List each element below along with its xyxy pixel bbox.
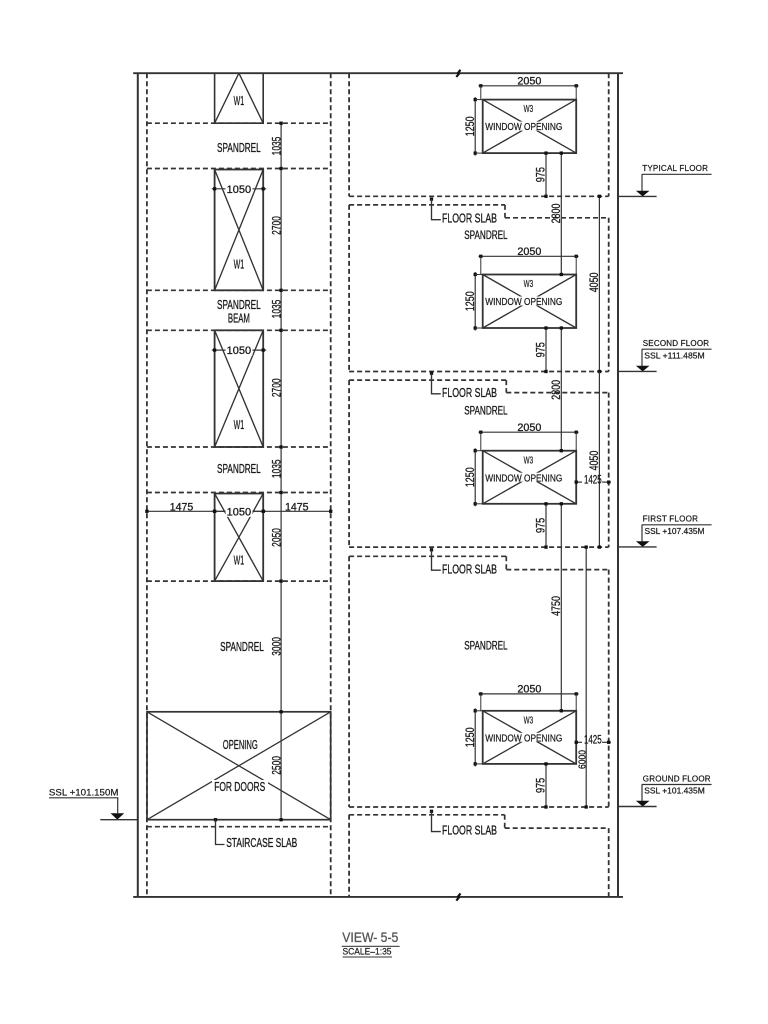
svg-text:975: 975 — [536, 778, 548, 793]
SECOND FLOOR drop line — [641, 349, 643, 366]
svg-text:OPENING: OPENING — [223, 737, 258, 752]
dim line 975 of W3 3 — [545, 504, 547, 547]
svg-text:SSL +101.435M: SSL +101.435M — [644, 786, 705, 796]
svg-text:W3: W3 — [524, 455, 534, 466]
svg-text:VIEW- 5-5: VIEW- 5-5 — [342, 930, 398, 945]
dim line 1050 of W1 third window — [212, 349, 266, 351]
svg-text:1425: 1425 — [584, 472, 602, 486]
svg-text:2050: 2050 — [517, 76, 541, 88]
dim line 6000 — [585, 547, 587, 807]
svg-text:SPANDREL: SPANDREL — [220, 639, 264, 654]
dim line 975 of W3 2 — [545, 328, 547, 372]
svg-text:FLOOR SLAB: FLOOR SLAB — [442, 823, 497, 838]
window W1 top partial box — [215, 73, 264, 123]
break mark on bottom border — [456, 894, 460, 901]
left strip vertical dimension line — [280, 123, 282, 820]
SECOND FLOOR arrow — [636, 366, 650, 372]
spandrel 4 top dashed line — [147, 580, 331, 582]
svg-text:SCALE–1:35: SCALE–1:35 — [343, 946, 392, 956]
dim line 2800 first — [560, 153, 562, 274]
opening for doors box — [147, 712, 331, 820]
svg-text:W1: W1 — [234, 256, 245, 271]
svg-text:3000: 3000 — [269, 637, 283, 656]
svg-text:1250: 1250 — [465, 291, 477, 311]
window W3 cross 3 — [483, 451, 577, 504]
svg-text:FLOOR SLAB: FLOOR SLAB — [442, 211, 497, 226]
floor slab leader 1 — [430, 197, 433, 200]
dim line 1425 1 — [576, 481, 582, 483]
GROUND FLOOR underline — [642, 784, 712, 786]
svg-text:1475: 1475 — [170, 501, 194, 513]
dim line 2050 of W3 2 — [479, 255, 579, 257]
svg-text:BEAM: BEAM — [228, 311, 250, 326]
TYPICAL FLOOR underline — [642, 173, 712, 175]
svg-text:975: 975 — [536, 518, 548, 533]
break mark on top border — [456, 70, 460, 77]
staircase slab top dashed line — [147, 826, 331, 828]
second floor dashed line — [349, 371, 609, 373]
window W3 cross 4 — [483, 711, 577, 764]
svg-text:TYPICAL FLOOR: TYPICAL FLOOR — [642, 163, 708, 173]
label W3 4 — [521, 714, 536, 723]
window W1 second window cross — [215, 170, 264, 291]
dim line 1250 of W3 1 — [474, 97, 476, 156]
dim line 1425 2 — [576, 741, 582, 743]
svg-text:2050: 2050 — [517, 422, 541, 434]
svg-text:FLOOR SLAB: FLOOR SLAB — [442, 385, 497, 400]
floor slab step dashed outline 3 — [349, 555, 506, 557]
title underline — [342, 945, 400, 947]
floor slab step dashed outline 4 — [349, 814, 505, 816]
label OPENING — [221, 738, 259, 750]
left SSL drop line — [117, 798, 119, 813]
svg-text:2700: 2700 — [269, 378, 283, 397]
TYPICAL FLOOR drop line — [641, 174, 643, 191]
dim line 1250 of W3 2 — [474, 272, 476, 331]
svg-text:W1: W1 — [234, 417, 245, 432]
spandrel beam bottom dashed line — [147, 329, 331, 331]
window W1 second window box — [215, 170, 264, 291]
dim line 1475-1050-1475 row — [147, 510, 331, 512]
SECOND FLOOR level line — [618, 370, 657, 372]
dim line 2050 of W3 1 — [479, 85, 579, 87]
svg-text:SPANDREL: SPANDREL — [464, 406, 508, 418]
svg-text:1425: 1425 — [584, 733, 602, 747]
svg-text:W3: W3 — [524, 104, 534, 115]
floor slab leader 4 — [430, 810, 433, 813]
window W1 fourth window box — [215, 494, 264, 582]
svg-text:WINDOW OPENING: WINDOW OPENING — [485, 122, 562, 133]
subtitle underline — [343, 956, 392, 958]
floor slab leader 3 — [430, 548, 433, 551]
svg-text:2050: 2050 — [517, 246, 541, 258]
svg-text:4050: 4050 — [589, 273, 601, 293]
svg-text:SSL +107.435M: SSL +107.435M — [645, 526, 705, 536]
svg-text:SPANDREL: SPANDREL — [217, 140, 261, 155]
window W3 box 2 — [483, 275, 577, 329]
svg-text:1250: 1250 — [465, 727, 477, 747]
dim line 4050 second — [598, 372, 600, 548]
window W3 box 4 — [483, 711, 577, 764]
right border wall line — [617, 73, 619, 897]
dim line 2050 of W3 3 — [479, 431, 579, 433]
spandrel 1 bottom dashed line — [147, 168, 331, 170]
label WINDOW OPENING 4 — [485, 733, 563, 742]
FIRST FLOOR arrow — [636, 541, 650, 547]
dim line 4050 first — [598, 196, 600, 371]
window W3 box 1 — [483, 100, 577, 154]
dim line 2800 second — [560, 328, 562, 451]
svg-text:WINDOW OPENING: WINDOW OPENING — [485, 297, 562, 308]
window W1 third window box — [215, 330, 264, 447]
svg-text:1475: 1475 — [285, 501, 309, 513]
GROUND FLOOR drop line — [641, 785, 643, 802]
first floor dashed line — [349, 546, 609, 548]
drawing bottom border line — [133, 896, 623, 898]
dim line 1050 of W1 second window — [212, 188, 266, 190]
spandrel 3 top dashed line — [147, 446, 331, 448]
window W3 cross 2 — [483, 275, 577, 329]
svg-text:6000: 6000 — [578, 750, 589, 769]
svg-text:WINDOW OPENING: WINDOW OPENING — [485, 733, 562, 744]
svg-text:W1: W1 — [234, 93, 245, 108]
floor slab step dashed outline 2 — [349, 379, 506, 381]
dim line 1250 of W3 4 — [474, 708, 476, 766]
left SSL arrow — [111, 813, 125, 819]
right strip left dashed line — [348, 73, 350, 196]
svg-text:FLOOR SLAB: FLOOR SLAB — [442, 561, 497, 576]
svg-text:2050: 2050 — [269, 528, 283, 547]
svg-text:975: 975 — [536, 167, 548, 182]
svg-text:SPANDREL: SPANDREL — [464, 230, 508, 242]
svg-text:FIRST FLOOR: FIRST FLOOR — [643, 514, 699, 524]
spandrel 3 bottom dashed line — [147, 492, 331, 494]
dim line 4750 — [560, 504, 562, 711]
svg-text:FOR DOORS: FOR DOORS — [214, 779, 265, 794]
left border wall line — [137, 73, 139, 897]
opening for doors cross — [147, 712, 331, 820]
svg-text:2700: 2700 — [269, 216, 283, 235]
SECOND FLOOR underline — [642, 348, 712, 350]
svg-text:SPANDREL: SPANDREL — [464, 641, 508, 653]
spandrel beam top dashed line — [147, 289, 331, 291]
svg-text:1035: 1035 — [269, 299, 283, 318]
label WINDOW OPENING 1 — [485, 122, 563, 131]
dim line 1050 of W1 fourth window — [212, 510, 266, 512]
svg-text:W3: W3 — [524, 279, 534, 290]
svg-text:4750: 4750 — [551, 596, 563, 616]
svg-text:1035: 1035 — [269, 136, 283, 155]
label WINDOW OPENING 2 — [485, 297, 563, 306]
svg-text:SSL +101.150M: SSL +101.150M — [49, 788, 119, 799]
window W1 third window cross — [215, 330, 264, 447]
label W3 1 — [521, 103, 536, 112]
FIRST FLOOR underline — [642, 524, 712, 526]
window W1 top cross legs — [215, 73, 264, 123]
dim line 975 of W3 4 — [545, 764, 547, 807]
label W3 3 — [521, 454, 536, 463]
svg-text:SECOND FLOOR: SECOND FLOOR — [643, 338, 710, 348]
svg-text:1250: 1250 — [465, 467, 477, 487]
svg-text:2800: 2800 — [551, 204, 563, 224]
right strip right dashed line — [608, 73, 610, 196]
svg-text:SPANDREL: SPANDREL — [217, 461, 261, 476]
left SSL level line — [100, 819, 138, 821]
drawing top border line — [133, 72, 623, 74]
svg-text:STAIRCASE SLAB: STAIRCASE SLAB — [226, 835, 297, 850]
svg-text:W1: W1 — [234, 553, 245, 568]
svg-text:W3: W3 — [524, 715, 534, 726]
svg-text:1050: 1050 — [227, 345, 252, 357]
dim line 1250 of W3 3 — [474, 448, 476, 506]
svg-text:1050: 1050 — [227, 184, 252, 196]
dim line 2050 of W3 4 — [479, 693, 579, 695]
left SSL underline — [49, 797, 119, 799]
floor slab leader 2 — [430, 372, 433, 375]
floor slab step dashed outline 1 — [349, 204, 505, 206]
GROUND FLOOR level line — [618, 806, 657, 808]
TYPICAL FLOOR arrow — [636, 191, 650, 197]
staircase slab leader — [214, 818, 217, 821]
GROUND FLOOR arrow — [636, 801, 650, 807]
FIRST FLOOR level line — [618, 546, 657, 548]
left strip inner dashed line — [146, 73, 148, 897]
label W3 2 — [521, 278, 536, 287]
svg-text:2500: 2500 — [269, 756, 283, 775]
svg-text:2050: 2050 — [517, 684, 541, 696]
window W3 box 3 — [483, 451, 577, 504]
svg-text:1035: 1035 — [269, 459, 283, 478]
ground floor dashed line — [349, 806, 609, 808]
typical floor dashed line — [349, 195, 609, 197]
svg-text:975: 975 — [536, 342, 548, 357]
svg-text:SSL +111.485M: SSL +111.485M — [644, 350, 705, 360]
TYPICAL FLOOR level line — [618, 195, 657, 197]
left strip right dashed line — [330, 73, 332, 897]
svg-text:GROUND FLOOR: GROUND FLOOR — [643, 773, 711, 783]
svg-text:4050: 4050 — [589, 451, 601, 471]
FIRST FLOOR drop line — [641, 525, 643, 542]
svg-text:1250: 1250 — [465, 116, 477, 136]
window W1 fourth window cross — [215, 494, 264, 582]
dim line 975 of W3 1 — [545, 153, 547, 196]
svg-text:2800: 2800 — [551, 380, 563, 400]
svg-text:1050: 1050 — [227, 506, 252, 518]
label WINDOW OPENING 3 — [485, 473, 563, 482]
label FOR DOORS — [212, 780, 268, 792]
spandrel 1 top dashed line — [147, 122, 331, 124]
window W3 cross 1 — [483, 100, 577, 154]
svg-text:WINDOW OPENING: WINDOW OPENING — [485, 473, 562, 484]
